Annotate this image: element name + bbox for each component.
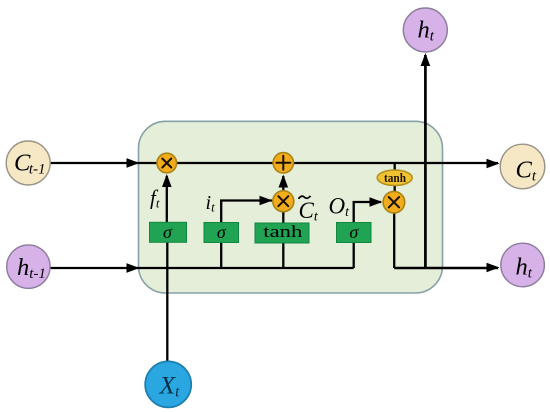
svg-text:σ: σ bbox=[349, 222, 359, 242]
svg-text:σ: σ bbox=[217, 222, 227, 242]
svg-text:tanh: tanh bbox=[263, 222, 303, 241]
svg-text:tanh: tanh bbox=[384, 170, 407, 185]
svg-text:σ: σ bbox=[163, 222, 173, 242]
